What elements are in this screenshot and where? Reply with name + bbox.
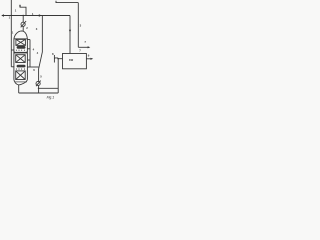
wire riser from header through valve to dome (22, 16, 24, 32)
distributor plate 2 (dark capsule) (17, 65, 26, 68)
wire arm column to spray line at y=60 (27, 59, 30, 61)
arrowhead left end of header (1, 14, 4, 16)
support plate band B (14, 52, 28, 54)
wire header down-leg x=70 to box top (69, 16, 71, 54)
valve V1 circle with slash (21, 22, 25, 26)
spray dashes row 2 (16, 68, 24, 69)
wire outlet arrow right at y=47.3 (78, 46, 88, 48)
spray dashes row 1 (16, 50, 24, 51)
wire midfield line x=42.3 from header down, jog to x=38.5, down through pump (39, 16, 43, 94)
wire column bottom outlet drop (18, 85, 20, 93)
packing X-box A (16, 39, 26, 45)
node pump line / return junction (38, 88, 39, 89)
wire right line x=78.3 down to y=47.3 (77, 3, 79, 48)
svg-text:Fig.1: Fig.1 (47, 96, 55, 100)
column funnel bottom (14, 80, 28, 85)
column dome top (14, 31, 28, 39)
sump liquid level chord (15, 81, 27, 83)
junction dots (11, 15, 59, 89)
node header/riser junction (23, 15, 24, 16)
packing X-box B (16, 55, 26, 63)
wire vent zigzag: up from header, left, arrow up (20, 6, 26, 16)
wire stub vertical x=54.4 (53, 55, 55, 63)
wire arm column to spray line at y=39.5 (27, 39, 30, 41)
wire box outlet right with arrow (87, 58, 92, 60)
wire box left inlet y=58.7 with crossover hump (55, 57, 63, 60)
arrowhead flow on header at x=40.5 (39, 14, 42, 16)
wire connector y=67 from column to pump line (27, 66, 38, 68)
arrowhead box outlet (91, 58, 94, 60)
column C1 outer walls (14, 39, 28, 80)
reference numeral specks (9, 9, 90, 79)
packing X-box C (16, 71, 26, 80)
svg-text:KW: KW (69, 59, 74, 62)
support plate band at dome base (14, 37, 28, 40)
wire feed line from top edge at x=11.3 down to y=66.8 (10, 0, 12, 67)
pump P1 circle with slash (36, 81, 40, 85)
wire vertical x=58.2 from box line down to bottom line (57, 59, 59, 93)
wire header line y=15.5 from x=2 to x=70 (2, 15, 70, 17)
wire horizontal return y=88.5 (39, 87, 59, 89)
wire right spray line x=30 from y=39.5 to y=67 (29, 40, 31, 68)
distributor plate 1 (dark oval) (17, 46, 26, 49)
arrowhead outlet right (88, 46, 91, 48)
node box-left junction (58, 58, 59, 59)
wire arm into column at y=50 (11, 49, 14, 51)
arrowhead down on x=70 line at y=31 (69, 30, 71, 33)
box U1 (heat exchanger / unit) (63, 54, 87, 69)
wire arm into column at y=66.8 (11, 66, 14, 68)
wire bottom sump line y=93 (19, 92, 59, 94)
wire arm column to spray line at y=48.8 (27, 48, 30, 50)
arrowhead vent up (19, 4, 21, 6)
wire top line y=2.6 from x=55.5 to x=78.3 (56, 1, 79, 3)
node header/feed junction (11, 15, 12, 16)
plate band end ticks (14, 50, 27, 53)
